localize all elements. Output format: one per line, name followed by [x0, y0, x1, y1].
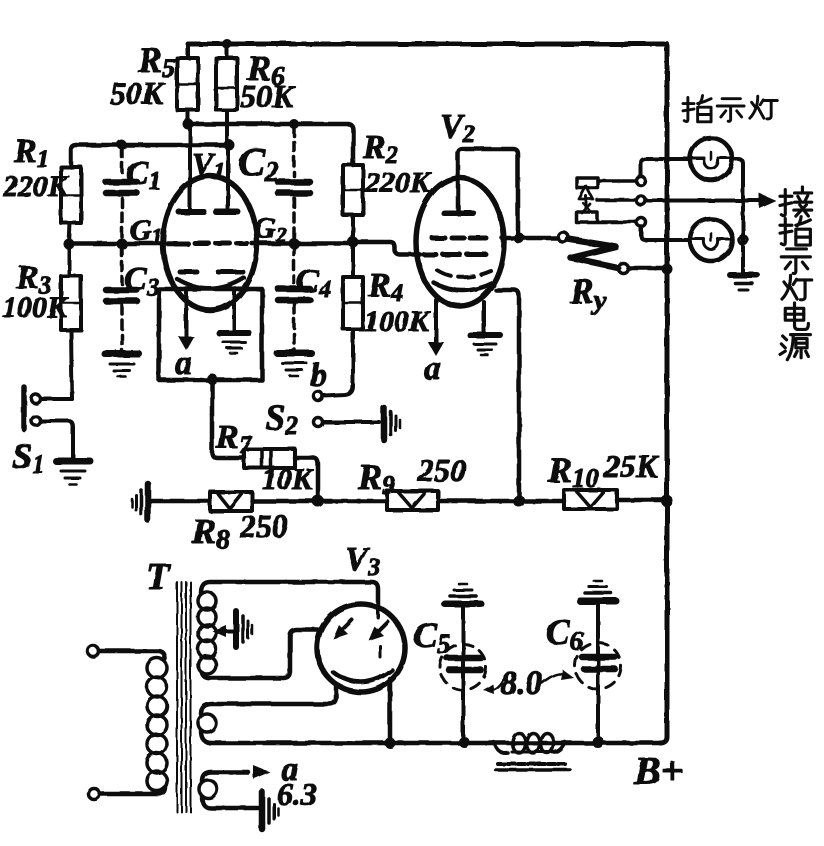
junction C5/B+ rail: [459, 737, 470, 748]
ground (lamps): [730, 275, 757, 290]
capacitor C5: [440, 608, 486, 738]
svg-text:S2: S2: [265, 397, 298, 440]
svg-text:V1: V1: [192, 146, 225, 185]
junction V2 plate node: [514, 233, 525, 244]
transformer primary terminal lower: [89, 789, 100, 800]
junction C6/B+ rail: [592, 736, 604, 748]
svg-text:a: a: [424, 350, 441, 387]
svg-text:25K: 25K: [603, 448, 660, 484]
capacitor C4: [278, 246, 310, 350]
label 接指示灯电源 (to indicator lamp supply): [780, 187, 812, 360]
wire grid step to V2: [353, 242, 420, 255]
transformer primary terminal upper: [88, 646, 99, 657]
resistor R4: [324, 242, 363, 396]
HV center tap arrow: [212, 625, 226, 637]
svg-text:B+: B+: [633, 748, 683, 793]
svg-text:R2: R2: [362, 129, 398, 169]
transformer HV winding: [198, 592, 216, 674]
svg-text:C5: C5: [413, 615, 451, 659]
junction lamp2 right: [739, 236, 747, 244]
svg-text:10K: 10K: [262, 463, 314, 496]
svg-text:220K: 220K: [364, 166, 432, 199]
transformer primary winding: [147, 658, 167, 791]
wire R1 to grid bus y=145: [71, 145, 229, 167]
resistor R10: [564, 490, 617, 509]
wire R7 to bias rail: [295, 458, 318, 497]
wire winding B bottom lead: [202, 797, 258, 808]
wire V3 filament right lead: [388, 679, 393, 743]
junction box bottom: [207, 374, 218, 385]
tube V1: [163, 124, 257, 310]
wire box to R7: [212, 380, 244, 458]
svg-text:R10: R10: [547, 450, 600, 493]
wire winding A bottom to B+ rail: [201, 731, 662, 743]
wire tap to ground: [222, 629, 232, 633]
relay contact middle: [579, 186, 776, 213]
wire V1 heater lead: [232, 291, 236, 331]
wire R10 to border: [617, 498, 667, 503]
tube V3: [317, 604, 405, 692]
resistor R7: [244, 449, 295, 468]
chassis (C6): [580, 581, 616, 601]
wire R8 to R9: [252, 499, 387, 504]
capacitor C2: [278, 127, 310, 240]
svg-text:C1: C1: [126, 155, 161, 195]
junction C1 top: [117, 140, 127, 150]
svg-text:100K: 100K: [364, 305, 431, 338]
svg-text:R7: R7: [215, 419, 253, 459]
wire plate node to relay: [524, 236, 558, 241]
capacitor C1: [106, 148, 137, 241]
wire R9 to R10: [438, 499, 564, 504]
junction R6 bottom node: [224, 140, 235, 151]
svg-text:8.0: 8.0: [500, 665, 543, 702]
wire grid bus G1-G2: [69, 241, 172, 246]
wire HV bottom lead to V3 left plate: [202, 630, 321, 678]
resistor R2: [343, 165, 363, 241]
wire right border rail: [660, 44, 667, 743]
junction armature/border: [662, 264, 673, 275]
node a arrow (V1 cathode): [178, 291, 194, 350]
resistor R3: [61, 244, 81, 399]
svg-text:R1: R1: [13, 133, 49, 173]
junction G2/C2: [289, 238, 300, 249]
svg-text:b: b: [310, 357, 327, 394]
wire V3 filament left lead: [201, 684, 336, 714]
wire V2 heater lead: [482, 302, 486, 333]
wire top B+ rail: [188, 42, 664, 47]
wire primary bottom lead: [100, 787, 165, 794]
transformer core: [177, 582, 191, 812]
svg-text:G1: G1: [130, 214, 163, 249]
svg-text:C2: C2: [238, 139, 279, 188]
relay contact lower: [576, 212, 689, 240]
svg-text:R4: R4: [367, 267, 403, 307]
label 指示灯 (indicator lamps): [683, 96, 777, 122]
wire cathode box V1: [159, 289, 262, 380]
ground (6.3V): [262, 792, 278, 829]
switch S1: [24, 387, 73, 458]
svg-text:R8: R8: [191, 511, 230, 554]
chassis (C5): [445, 584, 481, 604]
resistor R6: [216, 44, 237, 145]
ground (S1): [56, 461, 90, 484]
junction R6 top: [222, 39, 232, 49]
svg-text:V2: V2: [440, 108, 475, 148]
svg-text:C6: C6: [546, 612, 584, 656]
junction R1/R3 node: [64, 239, 75, 250]
wire primary top lead: [99, 651, 165, 659]
junction R5 bottom: [183, 119, 194, 130]
ground (V1 heater): [219, 333, 249, 353]
svg-text:C3: C3: [124, 261, 159, 301]
resistor R8: [210, 492, 252, 511]
lamp L2: [690, 219, 732, 261]
ground (C3): [105, 354, 139, 377]
wire lamps right side: [732, 159, 743, 272]
svg-text:50K: 50K: [240, 78, 296, 114]
svg-text:220K: 220K: [2, 170, 70, 203]
junction R10/border: [661, 495, 673, 507]
svg-text:100K: 100K: [2, 291, 69, 324]
svg-text:50K: 50K: [110, 75, 166, 111]
svg-text:250: 250: [417, 452, 466, 488]
resistor R9: [387, 491, 438, 510]
capacitor C3: [106, 247, 137, 351]
tube V2: [416, 149, 518, 306]
node a arrow (V2 cathode): [428, 300, 444, 356]
capacitor C6: [575, 605, 621, 737]
junction R7/bias rail: [312, 495, 324, 507]
wire ground to R8: [152, 499, 210, 504]
wire HV top lead to V3 plate: [201, 582, 378, 604]
svg-text:V3: V3: [345, 541, 380, 581]
inductor filter choke: [494, 733, 570, 770]
svg-text:C4: C4: [296, 263, 331, 303]
lamp L1: [690, 138, 732, 180]
ground (HV tap): [236, 611, 252, 647]
transformer filament winding A: [198, 714, 216, 732]
relay contact upper: [577, 159, 689, 188]
junction V3/B+ rail: [385, 738, 396, 749]
resistor R5: [177, 44, 198, 124]
svg-text:T: T: [146, 556, 171, 598]
svg-text:a: a: [175, 345, 192, 382]
resistor R1: [61, 167, 81, 244]
wire winding B top lead with arrow a: [202, 765, 270, 781]
ground (bias rail left): [132, 484, 148, 520]
svg-text:S1: S1: [12, 436, 45, 479]
wire grid bus right of V1: [252, 241, 353, 246]
junction C2 top: [289, 119, 299, 129]
relay Ry armature: [558, 232, 662, 273]
transformer 6.3V winding B: [199, 780, 217, 798]
switch S2: [314, 392, 380, 427]
ground (C4): [277, 353, 311, 376]
svg-text:Ry: Ry: [569, 271, 607, 315]
svg-text:250: 250: [239, 508, 288, 544]
junction V2 cathode/bias rail: [513, 495, 525, 507]
svg-text:6.3: 6.3: [277, 776, 317, 812]
ground (S2): [384, 408, 400, 440]
svg-text:R9: R9: [357, 457, 396, 500]
junction R2/R4 node: [348, 237, 359, 248]
label 8.0 with arrows: [483, 670, 574, 694]
junction G1: [117, 239, 128, 250]
ground (V2 heater): [470, 335, 500, 355]
wire V2 cathode down to bias rail: [496, 290, 519, 498]
wire plate bus y=124: [188, 124, 353, 165]
